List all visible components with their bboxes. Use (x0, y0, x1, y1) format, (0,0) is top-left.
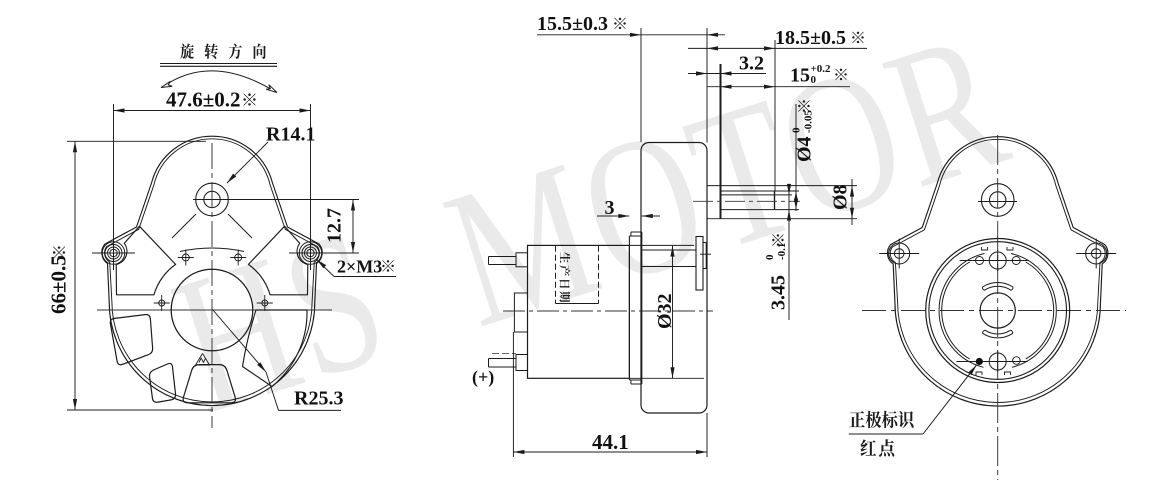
svg-text:0: 0 (811, 74, 817, 86)
svg-text:-0.05: -0.05 (803, 110, 815, 133)
svg-text:(+): (+) (472, 367, 494, 388)
svg-text:12.7: 12.7 (324, 208, 346, 243)
svg-text:66±0.5: 66±0.5 (47, 255, 71, 314)
svg-text:47.6±0.2: 47.6±0.2 (166, 88, 241, 112)
svg-text:15: 15 (790, 65, 810, 87)
svg-text:15.5±0.3: 15.5±0.3 (537, 13, 608, 35)
svg-text:R25.3: R25.3 (294, 388, 343, 410)
svg-text:18.5±0.5: 18.5±0.5 (775, 27, 846, 49)
svg-text:3.45: 3.45 (768, 275, 790, 310)
svg-text:44.1: 44.1 (592, 430, 629, 454)
svg-text:3.2: 3.2 (739, 53, 764, 75)
svg-text:R14.1: R14.1 (266, 124, 315, 146)
svg-text:3: 3 (605, 197, 615, 219)
svg-text:Ø32: Ø32 (654, 293, 676, 329)
svg-text:0: 0 (764, 254, 776, 260)
svg-text:Ø8: Ø8 (830, 184, 852, 210)
svg-text:0: 0 (791, 127, 803, 133)
svg-text:Ø4: Ø4 (794, 136, 816, 162)
svg-text:2×M3: 2×M3 (337, 257, 382, 277)
